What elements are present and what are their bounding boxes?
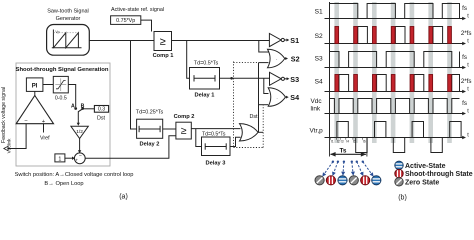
or-gate for S2 [268,49,285,68]
delay block Delay 2 [137,119,163,138]
svg-text:Vtr,p: Vtr,p [310,128,324,135]
switch node A [74,107,77,110]
wire Delay 2 to Comp 2 [163,128,176,130]
waveform S4 (red shoot-through pulses + active pulses) [330,75,460,92]
feedback wire with input port [8,124,26,149]
summing junction [74,153,85,164]
svg-text:t5: t5 [353,140,356,144]
svg-text:Generator: Generator [56,16,81,22]
shoot-through signal generation group box [16,63,110,166]
junction dot on S3 wire [230,77,233,80]
wire 0.75*Vp to Comp 1 [141,20,152,31]
svg-text:≥: ≥ [160,36,166,48]
svg-text:S4: S4 [290,93,299,102]
wire Delay 3 to Dst or-gate [230,137,241,146]
svg-text:2*fs: 2*fs [461,30,472,37]
svg-text:Active-State: Active-State [405,163,446,170]
error amplifier triangle [16,96,53,124]
axis row S4 [325,78,472,93]
svg-text:S1: S1 [290,36,299,45]
svg-text:B→ Open Loop: B→ Open Loop [44,181,83,187]
wire Dst or-gate output [258,131,263,133]
svg-text:fs: fs [462,5,467,12]
svg-text:fs: fs [462,100,467,107]
svg-text:Dst: Dst [249,114,258,120]
constant block 1 [55,154,65,162]
switch lever [78,109,82,112]
svg-text:t3: t3 [341,140,344,144]
svg-text:Vdc: Vdc [311,98,323,105]
svg-text:(b): (b) [398,195,407,202]
svg-text:fs: fs [462,54,467,61]
svg-text:1/2: 1/2 [76,129,83,135]
waveform Vdc link [330,99,460,114]
blue dashed arrows to state circles [322,161,373,177]
wire tap down to S4 or-gate upper input [264,78,269,93]
svg-text:S4: S4 [315,79,323,86]
waveform S1 [330,4,460,19]
svg-text:1: 1 [58,157,61,163]
svg-text:Td=0.5*Ts: Td=0.5*Ts [202,131,226,137]
saw-tooth signal generator block [47,25,90,56]
reference Vref [43,124,45,133]
svg-text:0-0.5: 0-0.5 [55,95,67,101]
svg-text:Ts: Ts [340,148,347,155]
wire tap down to S2 or-gate upper input [259,41,269,53]
wire Comp 2 output to Dst or-gate [191,128,240,130]
svg-text:Feedback voltage signal: Feedback voltage signal [1,87,7,143]
svg-text:Comp 1: Comp 1 [153,53,174,59]
axis row S3 [325,54,470,69]
inverter for S1 [269,34,281,47]
svg-text:t1: t1 [331,140,334,144]
dotted wire bottom run [234,147,264,149]
dotted distribution wire (vertical left) [233,62,235,148]
or-gate Dst combiner [240,124,259,141]
active-state circle [338,176,347,185]
svg-text:Td=0.5*Ts: Td=0.5*Ts [194,61,219,67]
wire tap down to Delay 1 [187,41,190,79]
svg-text:Comp 2: Comp 2 [174,114,195,120]
svg-text:Delay 1: Delay 1 [195,93,215,99]
svg-text:Vdclink: Vdclink [7,138,12,154]
svg-text:Shoot-through Signal Generati: Shoot-through Signal Generation [16,67,109,73]
zero-state circle [315,176,324,185]
svg-text:Zero State: Zero State [405,179,439,186]
svg-text:S3: S3 [315,56,323,63]
arrow 1 to summing junction [65,157,73,159]
dotted wire up to S4 input [262,105,264,148]
axis row Vdc [325,100,470,115]
svg-text:A: A [71,103,75,109]
timing diagram vertical axis [329,2,331,138]
svg-text:Shoot-through State: Shoot-through State [405,171,473,178]
svg-text:Delay 3: Delay 3 [206,161,226,167]
switch node B [81,107,84,110]
svg-text:−: − [79,153,82,159]
time tick labels t1..t6 [330,138,365,144]
wire tap down to Delay 2 [131,41,137,130]
wire tap down to Delay 3 [196,129,202,147]
active-state circle [372,176,381,185]
svg-text:Vp: Vp [55,30,59,34]
svg-text:Dst: Dst [97,116,106,122]
comparator Comp 1 [154,32,172,51]
delay block Delay 3 [202,137,231,156]
svg-text:t6: t6 [363,140,366,144]
comparator Comp 2 [176,122,191,139]
shoot-through state circle [361,176,370,185]
main wire from generator to comparator and gates [89,40,154,42]
svg-text:Switch position: A→Closed volt: Switch position: A→Closed voltage contro… [15,172,134,178]
svg-text:≥: ≥ [181,125,187,137]
svg-text:S2: S2 [315,33,323,40]
wire summing junction to Comp 2 [85,136,176,159]
svg-text:(a): (a) [119,193,128,200]
gain block 1/2 [71,126,88,138]
waveform S2 (red shoot-through pulses + active pulses) [330,27,460,44]
delay block Delay 1 [190,68,220,90]
legend active-state [395,161,446,170]
legend zero state [395,178,440,187]
wire PI to saturation [43,84,53,86]
wire Comp 1 output to S1 inverter [172,40,270,42]
vertical bus to S4 or-gate lower input and Dst output [258,63,260,133]
shoot-through state circle [326,176,335,185]
wire B to 0.3 block [84,108,94,110]
controller block PI [26,78,43,92]
svg-text:link: link [311,106,321,113]
Ts period bracket [330,138,367,157]
svg-text:t4: t4 [346,140,349,144]
svg-text:t2: t2 [337,140,340,144]
svg-text:S3: S3 [290,75,299,84]
saturation block 0-0.5 [53,76,68,101]
svg-text:Td=0.25*Ts: Td=0.25*Ts [136,110,164,116]
block 0.3 Dst [94,106,108,113]
waveform S3 [330,52,460,68]
wire S2 or-gate lower input [259,62,269,64]
or-gate for S4 [268,88,285,107]
svg-text:0.75*Vp: 0.75*Vp [116,18,135,24]
svg-text:PI: PI [32,83,38,89]
inverter for S3 [270,72,282,85]
wire saturation to switch point A [68,85,75,108]
block 0.75*Vp [111,16,141,25]
svg-text:Vref: Vref [40,136,50,142]
svg-text:S1: S1 [315,9,323,16]
arrow switch to 1/2 gain [77,112,79,124]
axis row Vtr [325,132,470,139]
svg-text:Saw-tooth Signal: Saw-tooth Signal [47,9,89,15]
zero-state circle [349,176,358,185]
svg-text:Delay 2: Delay 2 [140,142,160,148]
svg-text:Active-state ref. signal: Active-state ref. signal [111,7,164,13]
wire triangle to PI [34,91,36,95]
legend shoot-through state [395,169,473,178]
arrow 1/2 to summing junction [79,139,81,151]
svg-text:S2: S2 [291,55,300,64]
svg-text:2*fs: 2*fs [461,78,472,85]
waveform Vtr,p [337,122,461,153]
axis row S1 [325,5,470,20]
dotted wire to S2 or-gate [234,62,259,64]
axis row S2 [325,30,472,45]
svg-text:0.3: 0.3 [98,107,105,113]
wire Delay 1 output to S3 inverter [220,77,270,79]
svg-text:+: + [75,158,78,163]
shading: shoot-through interval bands [334,2,451,143]
